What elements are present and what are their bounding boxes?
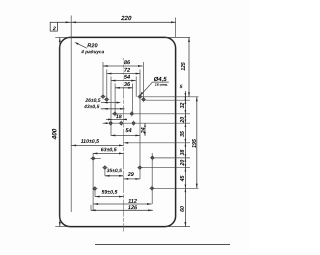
svg-text:35±0,5: 35±0,5	[107, 168, 122, 174]
svg-text:110±0,5: 110±0,5	[81, 139, 99, 145]
svg-text:18: 18	[116, 114, 122, 120]
svg-text:125: 125	[181, 62, 187, 71]
svg-text:54: 54	[125, 128, 132, 134]
svg-text:112: 112	[128, 199, 137, 205]
svg-text:60: 60	[180, 206, 186, 212]
svg-text:195: 195	[192, 139, 198, 148]
svg-text:20: 20	[180, 160, 186, 167]
svg-text:24: 24	[141, 127, 147, 134]
svg-text:5: 5	[180, 84, 183, 90]
svg-text:4 радиуса: 4 радиуса	[80, 49, 104, 54]
svg-text:36: 36	[124, 82, 131, 88]
svg-text:86: 86	[124, 60, 131, 66]
svg-text:45: 45	[180, 176, 186, 183]
svg-text:59±0,5: 59±0,5	[101, 190, 117, 196]
svg-text:16 отв.: 16 отв.	[155, 83, 168, 87]
svg-text:63±0,5: 63±0,5	[101, 147, 117, 153]
svg-text:220: 220	[120, 15, 132, 22]
svg-text:32: 32	[180, 103, 186, 109]
svg-text:2: 2	[52, 26, 56, 32]
svg-text:38: 38	[180, 150, 186, 156]
svg-text:35: 35	[180, 131, 186, 137]
svg-text:26±0,5: 26±0,5	[84, 98, 100, 104]
svg-text:72: 72	[124, 68, 131, 74]
svg-text:126: 126	[128, 205, 138, 211]
svg-text:43±0,5: 43±0,5	[83, 104, 99, 110]
svg-text:54: 54	[124, 75, 131, 81]
svg-text:29: 29	[127, 172, 134, 178]
svg-text:20: 20	[180, 117, 186, 124]
svg-text:400: 400	[52, 128, 59, 140]
